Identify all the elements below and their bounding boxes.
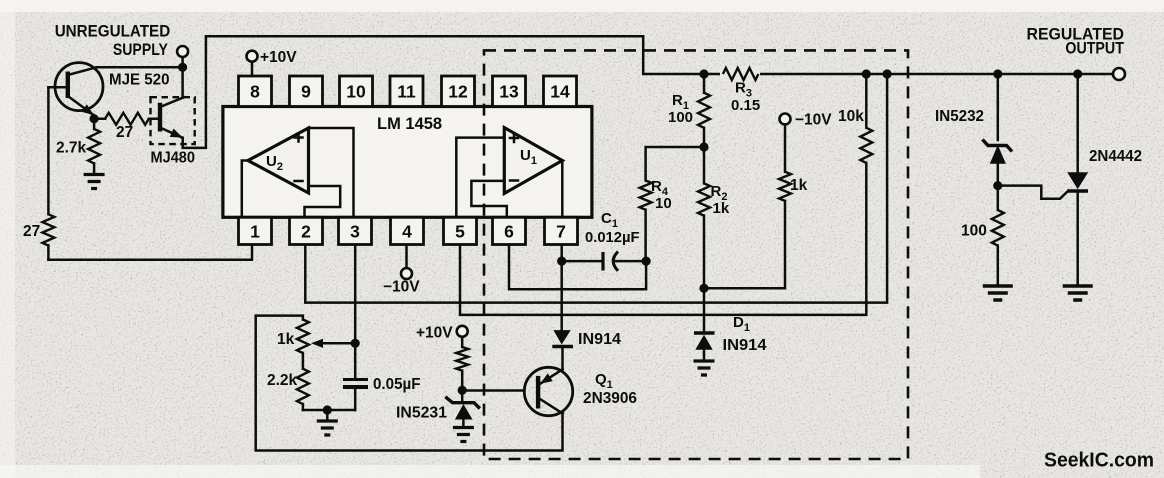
wire: MJ480 emitter to top rail to regulated output rail (183, 36, 1114, 148)
node: C1 left junction (557, 257, 566, 266)
label IN5232 (935, 108, 984, 125)
wire: pin 3 to wiper junction and 0.05uF (354, 245, 357, 380)
pin 14 (544, 76, 577, 107)
transistor Q MJE520 (48, 63, 103, 119)
node: wiper junction (351, 339, 360, 348)
svg-text:2N4442: 2N4442 (1089, 148, 1142, 165)
pin 10 (340, 76, 373, 107)
svg-text:2N3906: 2N3906 (583, 390, 637, 407)
svg-text:9: 9 (301, 82, 311, 102)
pin 12 (442, 76, 475, 107)
svg-text:3: 3 (350, 222, 360, 242)
node: ground junction (323, 405, 332, 414)
wire: pin 2 rail down to 1k pot top and loop box (256, 316, 563, 451)
svg-text:6: 6 (504, 222, 514, 242)
label IN5231 (396, 405, 447, 422)
pin 9 (290, 76, 323, 107)
svg-text:2.2k: 2.2k (267, 372, 298, 389)
svg-text:27: 27 (116, 124, 133, 141)
transistor MJ480 (dashed outline) (151, 97, 195, 144)
label R1 100 (668, 92, 693, 126)
label +10V (pin 8) (260, 49, 297, 66)
diode IN914 (pin 7 branch) (552, 261, 573, 346)
svg-text:27: 27 (23, 223, 40, 240)
label IN914 (top diode) (578, 331, 621, 348)
pin 8 (239, 76, 272, 107)
svg-text:2.7k: 2.7k (56, 140, 87, 157)
svg-text:1k: 1k (713, 200, 730, 217)
wire: MJE520 base down to 27 ohm resistor (47, 87, 50, 214)
resistor (bias, unlabeled) (456, 347, 468, 390)
svg-text:8: 8 (250, 82, 260, 102)
svg-text:10k: 10k (838, 108, 864, 125)
svg-text:10: 10 (655, 195, 672, 212)
svg-text:12: 12 (448, 82, 468, 102)
wire: Q1 base (462, 389, 524, 392)
label U2 (266, 153, 283, 173)
wire: gate drive to 2N4442 (998, 186, 1069, 199)
label 27 (left resistor) (23, 223, 40, 240)
label LM 1458 (377, 115, 442, 133)
op-amp U2 (248, 128, 309, 193)
label -10V (pin 4) (383, 279, 420, 296)
wire: pin 4 to -10V terminal (401, 245, 412, 279)
svg-text:4: 4 (402, 222, 412, 242)
pin 6 (493, 217, 526, 244)
resistor 1k (to -10V) (704, 125, 791, 289)
node: rail junction at R1 (699, 69, 708, 78)
terminal: +10V (bias) (457, 326, 468, 347)
wire: 27 ohm bottom to pin 1 (48, 245, 252, 260)
wire: U1 - input to pin 6 (471, 181, 506, 217)
potentiometer 1k (297, 320, 309, 353)
svg-text:14: 14 (550, 82, 570, 102)
svg-text:+10V: +10V (260, 49, 297, 66)
wire: unregulated supply terminal to MJE520 collector (97, 57, 183, 67)
node: sense junction on rail (883, 69, 892, 78)
ground: below 100 (983, 286, 1013, 300)
capacitor 0.05uF (343, 380, 368, 411)
terminal: REGULATED OUTPUT (1113, 68, 1125, 80)
svg-text:5: 5 (455, 222, 465, 242)
svg-text:0.012µF: 0.012µF (585, 229, 640, 246)
wire: Q1 emitter up to IN914 (561, 348, 564, 369)
label 27 (MJ480 base) (116, 124, 133, 141)
ground: below IN5231 (453, 428, 474, 442)
svg-text:7: 7 (556, 222, 566, 242)
svg-text:SeekIC.com: SeekIC.com (1044, 450, 1154, 472)
wire: U2 + input to pin 3 (309, 128, 354, 217)
svg-text:1k: 1k (790, 177, 808, 194)
svg-text:13: 13 (499, 82, 519, 102)
label -10V (right) (795, 112, 832, 129)
label U1 (520, 147, 537, 167)
svg-text:UNREGULATED: UNREGULATED (55, 22, 171, 41)
transistor Q1 2N3906 (524, 367, 572, 415)
pin 3 (339, 217, 372, 244)
node: rail junction at IN5232 (993, 69, 1002, 78)
wire: junction to R4 (646, 147, 704, 181)
svg-text:IN5231: IN5231 (396, 405, 447, 422)
node: Q1 base junction (458, 386, 467, 395)
svg-text:IN914: IN914 (723, 337, 767, 354)
pin 13 (493, 76, 526, 107)
svg-text:IN914: IN914 (578, 331, 621, 348)
svg-text:OUTPUT: OUTPUT (1065, 39, 1124, 58)
thyristor 2N4442 (1067, 74, 1088, 284)
node: rail junction at 10k (862, 69, 871, 78)
wire: pin 7 down to C1 junction (562, 245, 602, 261)
label D1 IN914 (723, 314, 767, 354)
resistor 27 (left) (42, 214, 54, 259)
svg-text:1k: 1k (277, 331, 295, 348)
label 1k (pot) (277, 331, 295, 348)
label 0.012uF (585, 229, 640, 246)
wire: wiper arrow into 1k pot (311, 339, 355, 348)
resistor 2.2k (297, 353, 309, 410)
capacitor C1 0.012uF (603, 252, 646, 271)
resistor 27 (base of MJ480) (94, 113, 160, 125)
terminal: UNREGULATED SUPPLY (177, 46, 188, 57)
op-amp U1 (504, 128, 562, 194)
label 10k (838, 108, 864, 125)
pin 1 (239, 217, 272, 244)
label C1 (601, 210, 618, 230)
wire: pin 5 to 10k bottom (long return) (460, 163, 866, 315)
pin 4 (391, 217, 424, 244)
wire: U1 output to pin 7 (561, 161, 564, 217)
label 2N4442 (1089, 148, 1142, 165)
resistor R1 100 (698, 74, 710, 147)
label REGULATED OUTPUT (1027, 25, 1125, 58)
pin 2 (290, 217, 323, 244)
node: zener/100/gate junction (993, 181, 1002, 190)
label 100 (961, 223, 987, 240)
ground: below 2.7k (84, 175, 105, 189)
pin 7 (545, 217, 578, 244)
node: R1/R4/R2 junction (699, 142, 708, 151)
label MJE 520 (109, 72, 170, 89)
pin 5 (444, 217, 477, 244)
zener IN5232 (982, 74, 1012, 186)
label R3 0.15 (731, 80, 760, 115)
svg-text:1: 1 (250, 222, 260, 242)
ground: below 2N4442 (1063, 286, 1093, 300)
svg-text:−10V: −10V (383, 279, 420, 296)
svg-text:IN5232: IN5232 (935, 108, 984, 125)
svg-text:11: 11 (397, 82, 416, 102)
ground: below pot network (317, 421, 338, 435)
svg-text:100: 100 (668, 109, 693, 126)
svg-text:10: 10 (346, 82, 366, 102)
wire: U1 + input to pin 5 (456, 138, 504, 217)
zener IN5231 (445, 390, 479, 426)
label 1k (to -10V) (790, 177, 808, 194)
wire: pin 6 to C1/R4 junction (509, 245, 646, 289)
terminal: +10V at pin 8 (247, 51, 258, 76)
svg-text:MJE 520: MJE 520 (109, 72, 170, 89)
svg-text:MJ480: MJ480 (151, 150, 196, 167)
watermark SeekIC.com (1044, 450, 1154, 472)
wire: 2.2k / 0.05uF common to ground (303, 410, 355, 420)
IC U LM1458 body (223, 107, 592, 218)
ground: below D1 (694, 361, 715, 375)
resistor 2.7k (88, 119, 100, 174)
label R2 1k (711, 183, 730, 217)
label Q1 2N3906 (583, 371, 637, 407)
wire: pin 2 to output sense (long return) (305, 74, 887, 303)
node: C1 right junction (642, 257, 651, 266)
pin 11 (390, 76, 423, 107)
label +10V (bias) (416, 325, 453, 342)
diode D1 IN914 (694, 288, 715, 359)
wire: supply junction down to MJ480 collector (181, 67, 184, 97)
node: supply junction (178, 63, 187, 72)
label 2.2k (267, 372, 298, 389)
svg-text:0.15: 0.15 (731, 97, 760, 114)
wire: U2 output to pin 1 (242, 161, 248, 217)
label 0.05uF (373, 376, 421, 393)
dashed feedback boundary box (484, 50, 908, 459)
terminal: -10V (right) (780, 114, 791, 125)
svg-text:0.05µF: 0.05µF (373, 376, 421, 393)
resistor R3 0.15 (on rail) (720, 66, 760, 82)
svg-text:−10V: −10V (795, 112, 832, 129)
node: R2/D1/1k junction (699, 284, 708, 293)
wire: U2 - input to pin 2 (305, 186, 341, 217)
svg-text:+10V: +10V (416, 325, 453, 342)
svg-text:2: 2 (301, 222, 311, 242)
node: MJE520 emitter junction (90, 114, 99, 123)
label 2.7k (56, 140, 87, 157)
label R4 10 (651, 178, 672, 212)
resistor 100 (992, 186, 1004, 284)
svg-text:LM 1458: LM 1458 (377, 115, 442, 133)
svg-text:100: 100 (961, 223, 987, 240)
svg-text:SUPPLY: SUPPLY (113, 40, 169, 59)
resistor R4 10 (640, 181, 652, 262)
resistor 10k (860, 74, 872, 163)
label UNREGULATED SUPPLY (55, 22, 171, 60)
resistor R2 1k (698, 147, 710, 288)
label MJ480 (151, 150, 196, 167)
node: rail junction at 2N4442 (1073, 69, 1082, 78)
